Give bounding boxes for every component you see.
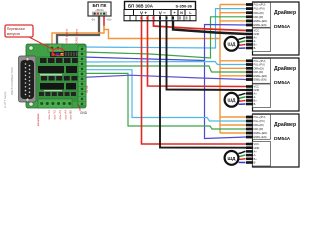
svg-text:Драйвер: Драйвер bbox=[274, 9, 296, 16]
stepper motor M2 (ShD) bbox=[225, 93, 246, 107]
IC chip U4 bbox=[66, 83, 76, 90]
wire DIR Z green board to driver 3 DIR- bbox=[83, 73, 247, 129]
svg-text:ШД: ШД bbox=[228, 156, 237, 161]
wire ENABLE purple board to driver 2 ENBL- bbox=[83, 75, 247, 79]
power input terminal on board top bbox=[48, 44, 62, 52]
wire orange +5V stub to driver 1 pin 5 bbox=[220, 20, 247, 22]
svg-text:S-350-36: S-350-36 bbox=[176, 4, 193, 9]
red pointer line to GND label bbox=[78, 104, 80, 111]
wire orange +5V stub to driver 2 pin 3 bbox=[220, 67, 247, 69]
svg-text:Драйвер: Драйвер bbox=[274, 121, 296, 128]
wire +5V orange feed from PC PSU to drivers bus bbox=[104, 26, 220, 39]
label axis terminals red vertical below board bbox=[47, 110, 73, 120]
svg-text:ENBL+(EN): ENBL+(EN) bbox=[254, 131, 268, 135]
svg-text:+: + bbox=[173, 11, 175, 15]
component row band 2 bbox=[41, 76, 77, 81]
wire orange vertical +5V bus bbox=[219, 5, 221, 134]
svg-text:V −: V − bbox=[159, 10, 166, 15]
driver U1 signal pins bbox=[246, 3, 253, 26]
wire orange +5V stub to driver 3 pin 5 bbox=[220, 132, 247, 134]
svg-text:V +: V + bbox=[140, 10, 147, 15]
svg-text:A+: A+ bbox=[254, 36, 258, 40]
svg-text:PUL+(PU): PUL+(PU) bbox=[254, 115, 266, 119]
svg-text:DIR-(DI): DIR-(DI) bbox=[254, 127, 264, 131]
svg-text:B+: B+ bbox=[254, 99, 258, 103]
driver U3 signal pins bbox=[246, 116, 253, 139]
svg-text:GND черн.: GND черн. bbox=[75, 28, 79, 43]
wire GND black to driver 1 bbox=[173, 21, 247, 34]
svg-text:DIR+(DI): DIR+(DI) bbox=[254, 66, 264, 70]
svg-text:-5v: -5v bbox=[91, 18, 96, 22]
svg-text:GND: GND bbox=[80, 111, 88, 115]
wire STEP Y cyan board to driver 2 PUL- bbox=[83, 62, 247, 65]
stepper motor M3 (ShD) bbox=[225, 151, 246, 165]
svg-text:B-: B- bbox=[254, 102, 257, 106]
callout arrow line bbox=[29, 37, 53, 50]
jumper header block bbox=[50, 52, 67, 57]
svg-text:B-: B- bbox=[254, 161, 257, 165]
svg-text:DIR-(DI): DIR-(DI) bbox=[254, 70, 264, 74]
svg-text:DIR+(DI): DIR+(DI) bbox=[254, 11, 264, 15]
svg-text:+5В красн.: +5В красн. bbox=[65, 28, 69, 43]
svg-text:ШД: ШД bbox=[228, 98, 237, 103]
callout ellipse around jumpers bbox=[53, 48, 65, 55]
svg-text:DM54A: DM54A bbox=[274, 24, 291, 30]
svg-text:ось-A4: ось-A4 bbox=[64, 110, 68, 120]
svg-text:ENBL+(EN): ENBL+(EN) bbox=[254, 74, 268, 78]
power supply PS2 PC (BP PK) bbox=[88, 2, 111, 16]
wire ENABLE blue board to driver 1 ENBL- bbox=[83, 25, 247, 61]
callout jumpers note box bbox=[5, 25, 33, 37]
wire DIR X green board to driver 1 DIR- bbox=[83, 17, 247, 58]
wire +36V red to driver 3 bbox=[142, 21, 247, 144]
svg-text:ENBL-(EN): ENBL-(EN) bbox=[254, 78, 267, 82]
svg-text:A+: A+ bbox=[254, 150, 258, 154]
wire STEP Z cyan board to driver 3 PUL- bbox=[83, 70, 247, 121]
wire GND black to driver 3 bbox=[160, 21, 247, 148]
svg-text:PUL-(PU): PUL-(PU) bbox=[254, 7, 265, 11]
wire DIR Y green board to driver 2 DIR- bbox=[83, 66, 247, 72]
wire orange +5V stub to driver 2 pin 1 bbox=[220, 60, 247, 62]
svg-text:П2 П4: П2 П4 bbox=[85, 85, 89, 93]
wire STEP X cyan board to driver 1 PUL- bbox=[83, 9, 247, 48]
svg-text:VCC: VCC bbox=[254, 142, 260, 146]
component row band 1 bbox=[40, 58, 79, 63]
svg-text:VCC: VCC bbox=[254, 29, 260, 33]
svg-text:ось-X1: ось-X1 bbox=[47, 110, 51, 120]
power supply S-350-36 (BP 36V 10A) bbox=[125, 2, 196, 21]
IC chip U3 bbox=[40, 83, 64, 90]
svg-text:+5v: +5v bbox=[107, 18, 112, 22]
svg-text:GND: GND bbox=[254, 146, 260, 150]
wire +36V red to driver 1 bbox=[154, 21, 247, 31]
svg-text:БП ПК: БП ПК bbox=[93, 3, 107, 8]
driver U2 signal pin block bbox=[253, 59, 271, 84]
svg-text:ENBL-(EN): ENBL-(EN) bbox=[254, 135, 267, 139]
svg-text:Драйвер: Драйвер bbox=[274, 65, 296, 72]
wire +5V red segment from PC PSU plus terminal bbox=[103, 16, 105, 26]
svg-text:B-: B- bbox=[254, 46, 257, 50]
svg-text:концевики: концевики bbox=[37, 113, 40, 126]
svg-text:PUL-(PU): PUL-(PU) bbox=[254, 63, 265, 67]
wire orange +5V stub to driver 3 pin 1 bbox=[220, 116, 247, 118]
svg-text:DIR-(DI): DIR-(DI) bbox=[254, 15, 264, 19]
svg-text:GND: GND bbox=[254, 88, 260, 92]
wire ENABLE blue vertical branch to driver 3 bbox=[205, 61, 247, 139]
driver U2 signal pins bbox=[246, 59, 253, 81]
svg-text:A-: A- bbox=[254, 153, 257, 157]
wire orange +5V stub to driver 2 pin 5 bbox=[220, 75, 247, 77]
wire +36V red to driver 2 bbox=[148, 21, 247, 87]
svg-text:DIR+(DI): DIR+(DI) bbox=[254, 123, 264, 127]
driver U1 power pin block bbox=[253, 28, 271, 52]
svg-text:A+: A+ bbox=[254, 92, 258, 96]
wire +5V orange from PC PSU to board bbox=[52, 26, 104, 45]
pin headers row on board top bbox=[64, 51, 84, 57]
svg-text:ENBL-(EN): ENBL-(EN) bbox=[254, 23, 267, 27]
svg-text:DM54A: DM54A bbox=[274, 136, 291, 142]
svg-text:ENBL+(EN): ENBL+(EN) bbox=[254, 19, 268, 23]
svg-text:PUL+(PU): PUL+(PU) bbox=[254, 3, 266, 7]
svg-text:B+: B+ bbox=[254, 43, 258, 47]
svg-text:DB25 CONNECTOR: DB25 CONNECTOR bbox=[10, 67, 14, 95]
svg-text:БП 36В 10А: БП 36В 10А bbox=[128, 4, 154, 9]
svg-text:Перемычки: Перемычки bbox=[7, 27, 25, 31]
component row band 3 bbox=[39, 74, 76, 96]
driver U2 power pin block bbox=[253, 84, 271, 108]
breakout board PCB bbox=[26, 44, 86, 108]
terminal strip of 36V PSU bbox=[124, 10, 196, 21]
svg-text:ось-Y2: ось-Y2 bbox=[53, 110, 57, 120]
svg-text:VCC: VCC bbox=[254, 85, 260, 89]
driver U1 DM54A box bbox=[253, 2, 300, 55]
wire GND black to driver 2 bbox=[167, 21, 247, 90]
bottom terminal strip bbox=[38, 99, 72, 108]
driver U2 power pins bbox=[246, 85, 253, 105]
driver U3 power pins bbox=[246, 143, 253, 164]
driver U1 signal pin block bbox=[253, 3, 271, 28]
svg-text:ШД: ШД bbox=[228, 42, 237, 47]
wire GND gray from PC PSU to board bbox=[57, 16, 99, 45]
wire orange +5V stub to driver 3 pin 3 bbox=[220, 124, 247, 126]
wire orange +5V stub to driver 1 pin 3 bbox=[220, 12, 247, 14]
wire orange +5V stub to driver 1 pin 1 bbox=[220, 4, 247, 6]
svg-text:DM54A: DM54A bbox=[274, 80, 291, 86]
IC chip U1 bbox=[38, 66, 64, 73]
svg-text:PUL-(PU): PUL-(PU) bbox=[254, 119, 265, 123]
svg-text:ось-Z3: ось-Z3 bbox=[58, 110, 62, 120]
driver U1 power pins bbox=[246, 29, 253, 49]
svg-text:GND: GND bbox=[254, 32, 260, 36]
svg-text:B+: B+ bbox=[254, 157, 258, 161]
driver U3 signal pin block bbox=[253, 115, 271, 140]
svg-text:минусов: минусов bbox=[7, 32, 20, 36]
driver U3 power pin block bbox=[253, 142, 271, 167]
svg-text:ось-B5: ось-B5 bbox=[69, 110, 73, 120]
IC chip U2 bbox=[66, 66, 77, 73]
svg-text:+5В/2A: +5В/2A bbox=[95, 8, 104, 12]
svg-text:К LPT порту: К LPT порту bbox=[3, 91, 7, 108]
svg-text:A-: A- bbox=[254, 95, 257, 99]
stepper motor M1 (ShD) bbox=[225, 37, 246, 51]
svg-text:PUL+(PU): PUL+(PU) bbox=[254, 59, 266, 63]
driver U3 DM54A box bbox=[253, 114, 300, 167]
driver U2 DM54A box bbox=[253, 58, 300, 111]
right edge terminal strip bbox=[78, 45, 86, 106]
DB25 connector bbox=[19, 56, 37, 102]
svg-text:N: N bbox=[180, 11, 183, 15]
svg-text:A-: A- bbox=[254, 39, 257, 43]
